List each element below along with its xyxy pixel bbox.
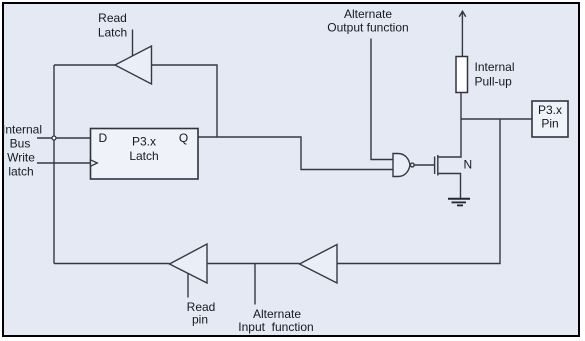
svg-text:Alternate: Alternate [344,7,392,21]
svg-text:Pull-up: Pull-up [475,75,513,89]
svg-text:Latch: Latch [129,149,158,163]
svg-text:Q: Q [179,131,188,145]
svg-text:D: D [99,131,108,145]
svg-text:Alternate: Alternate [253,307,301,321]
svg-text:P3.x: P3.x [132,135,156,149]
svg-text:Read: Read [98,11,127,25]
svg-text:Write: Write [7,151,35,165]
svg-text:P3.x: P3.x [538,103,562,117]
svg-text:Pin: Pin [541,117,558,131]
svg-text:Internal: Internal [475,60,515,74]
svg-text:Output function: Output function [327,21,408,35]
svg-text:N: N [464,158,473,172]
svg-text:Input function: Input function [238,320,313,334]
svg-text:Latch: Latch [98,26,127,40]
svg-text:latch: latch [8,165,33,179]
svg-text:Bus: Bus [10,137,31,151]
svg-text:Internal: Internal [2,123,42,137]
svg-text:pin: pin [192,313,208,327]
